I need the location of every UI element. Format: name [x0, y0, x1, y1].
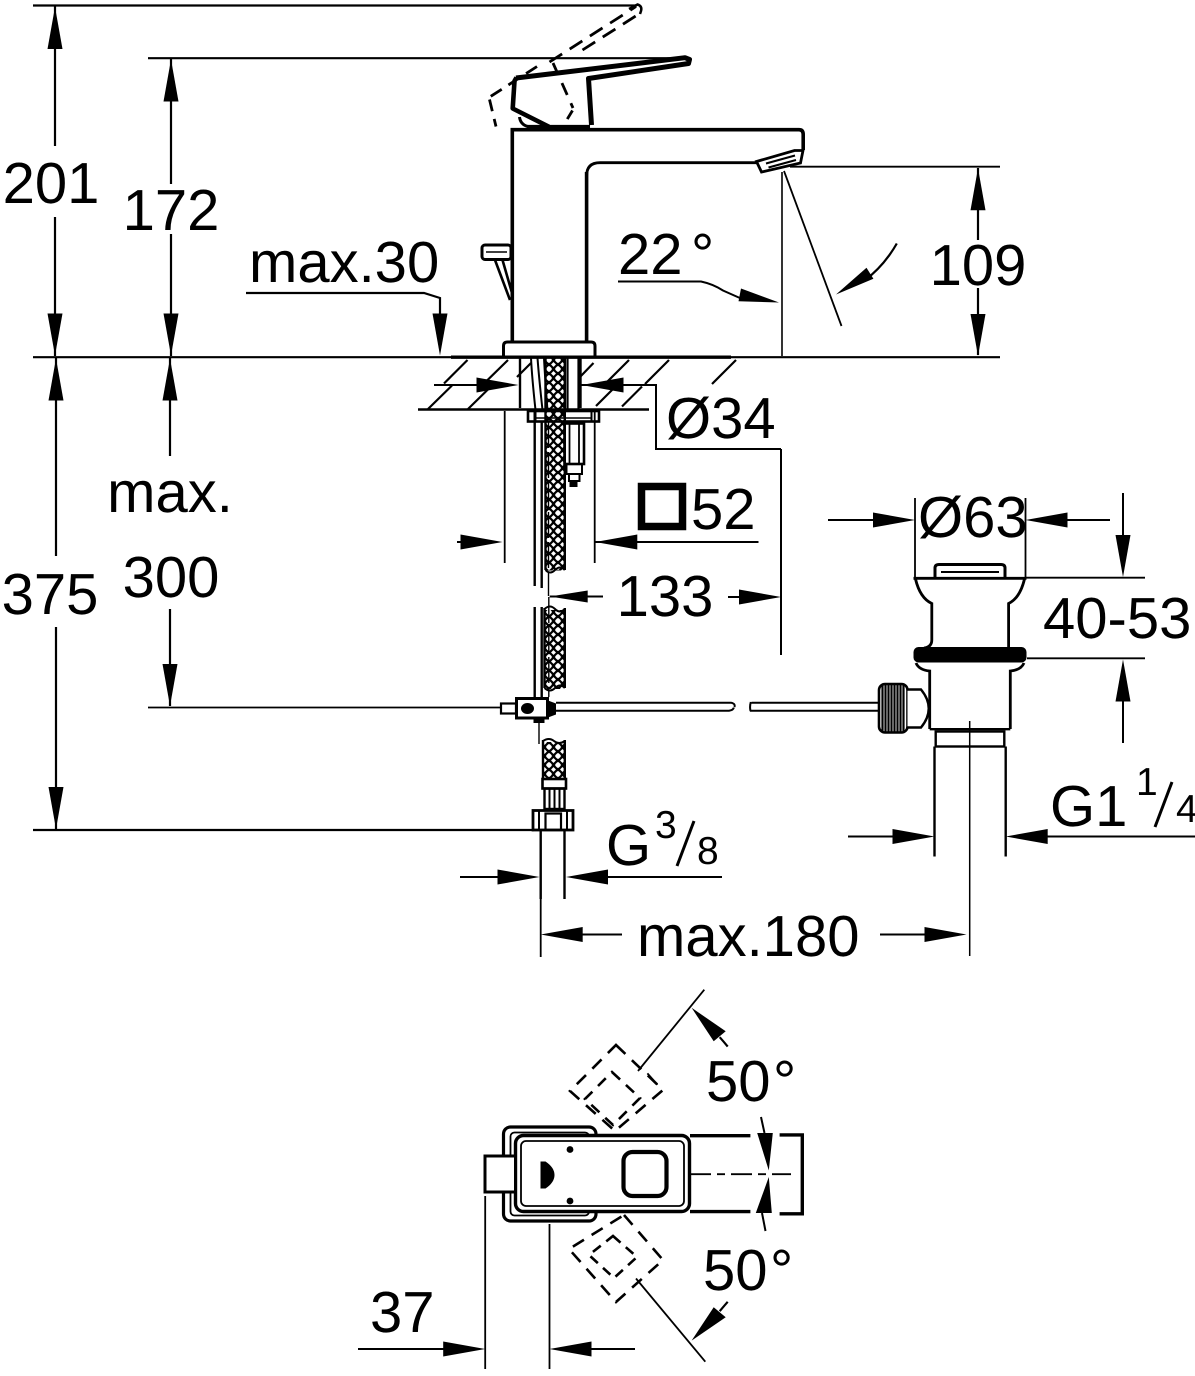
faucet body outline [511, 129, 804, 343]
counter hatching [428, 360, 736, 409]
drain knurled knob [879, 684, 929, 733]
dimension dia63 [828, 513, 1110, 528]
dimension G1 1/4 [848, 829, 1195, 844]
drain coupling [936, 732, 1005, 747]
braided hose to G3/8 [543, 739, 565, 778]
svg-text:375: 375 [2, 562, 99, 627]
dimension 201 vertical line [48, 6, 63, 356]
svg-text:50: 50 [703, 1238, 768, 1303]
dimension max.300 vertical line [163, 358, 178, 706]
label sq52 [642, 477, 756, 542]
top view pop-up knob tab [485, 1156, 516, 1192]
hose centerline [539, 422, 549, 744]
pop-up rod knob behind faucet [482, 245, 512, 300]
extension line top (201 level) [33, 4, 637, 6]
extension line 133 right / dia34 [780, 449, 782, 655]
dimension max.180 [541, 927, 967, 942]
threaded shank / braided hose upper [546, 358, 565, 573]
counter bottom line [418, 408, 649, 411]
extension line rod level (max.300 end) [148, 707, 502, 709]
pull rod in hole [566, 358, 568, 411]
mounting hole edges [519, 358, 521, 409]
dimension 375 vertical line [49, 358, 64, 829]
spout aerator [757, 151, 804, 173]
svg-text:Ø63: Ø63 [918, 485, 1028, 550]
svg-text:°: ° [691, 222, 714, 287]
G3/8 hose ferrule [543, 779, 567, 789]
G3/8 connection nut [533, 811, 573, 831]
water stream 22 deg line [784, 171, 842, 326]
50deg leader arrow lower [692, 1302, 728, 1341]
dimension G3/8 [460, 870, 722, 885]
G3/8 tail pipe [540, 830, 542, 899]
dimension 133 [550, 590, 781, 605]
dashed square upper inner [585, 1072, 640, 1125]
drain body [916, 663, 1024, 729]
50deg extension line lower [636, 1279, 705, 1362]
leader max.30 [246, 293, 448, 356]
handle lever (solid, down position) [513, 58, 690, 128]
svg-text:37: 37 [370, 1280, 435, 1345]
rod tee junction [501, 699, 556, 724]
dimension 37 [358, 1342, 635, 1357]
drain tail pipe [933, 747, 935, 857]
arc arrow to 22deg line [836, 244, 897, 295]
svg-text:°: ° [773, 1049, 796, 1114]
dimension 40-53 [1116, 493, 1131, 743]
G3/8 corrugated sleeve [545, 789, 565, 810]
dashed square lower outer [569, 1215, 663, 1302]
50deg leader arrow upper [692, 1008, 728, 1047]
extension line 172 level [148, 57, 686, 59]
svg-text:1: 1 [1136, 761, 1158, 804]
dashed square lower inner [589, 1236, 637, 1278]
braided hose lower [545, 607, 565, 691]
horizontal rod segment 2 [750, 702, 879, 711]
svg-text:109: 109 [930, 233, 1027, 298]
water stream vertical reference [781, 172, 783, 356]
svg-text:max.180: max.180 [637, 904, 859, 969]
svg-text:G1: G1 [1050, 774, 1127, 839]
drain dim dia63 extension lines [914, 498, 916, 578]
dimension 109 vertical line [971, 168, 986, 356]
top view handle body [516, 1136, 690, 1212]
counter top line [33, 356, 1000, 358]
svg-text:Ø34: Ø34 [666, 386, 776, 451]
svg-text:4: 4 [1176, 788, 1195, 831]
svg-text:max.: max. [107, 460, 233, 525]
faucet base plate [504, 342, 596, 357]
svg-text:40-53: 40-53 [1043, 586, 1191, 651]
svg-text:G: G [606, 813, 651, 878]
mounting washer nut [528, 411, 599, 422]
hoses curving through hole [531, 358, 548, 411]
extension line bottom (375 end) [33, 829, 534, 831]
horizontal rod segment 1 [556, 703, 735, 711]
dimension 172 vertical line [164, 59, 179, 356]
svg-text:133: 133 [617, 564, 714, 629]
top view logo mark [541, 1162, 555, 1189]
extension line spout outlet level [790, 166, 1000, 168]
drain centerline [969, 721, 971, 956]
svg-text:201: 201 [3, 151, 100, 216]
drain plug cap [935, 565, 1005, 578]
top view lever blade lines [690, 1135, 802, 1214]
pull rod guide block [565, 424, 585, 488]
handle raised position (dashed) [490, 5, 642, 127]
top view base plate [504, 1127, 597, 1221]
pull rod lower (to tee) [535, 412, 542, 697]
svg-text:22: 22 [618, 222, 683, 287]
svg-text:max.30: max.30 [249, 230, 439, 295]
top view handle inner line [521, 1141, 684, 1206]
40-53 extension lines [1026, 577, 1146, 579]
svg-text:52: 52 [691, 477, 756, 542]
svg-text:50: 50 [706, 1049, 771, 1114]
top view lever square [624, 1152, 667, 1196]
dashed square upper outer [570, 1045, 663, 1131]
top view screw dots [567, 1146, 574, 1153]
leader 22deg [618, 282, 779, 303]
svg-text:°: ° [770, 1238, 793, 1303]
drain rubber washer [914, 647, 1027, 663]
label G1 1/4 [1050, 761, 1195, 839]
drain flange [914, 578, 1027, 648]
svg-text:300: 300 [123, 545, 220, 610]
50deg extension line upper [638, 990, 704, 1085]
top view centerline [690, 1173, 791, 1175]
37 extension lines [484, 1196, 486, 1369]
dimension sq52 [457, 535, 759, 550]
top view base plate inner line [511, 1133, 590, 1216]
svg-text:8: 8 [697, 830, 719, 873]
sq52 extension lines [504, 411, 506, 563]
dimension dia34 [434, 378, 781, 450]
angle bowtie arrows [756, 1117, 773, 1231]
extension line for max180 left [540, 899, 542, 957]
svg-text:172: 172 [123, 178, 220, 243]
svg-text:3: 3 [655, 804, 677, 847]
label G3/8 [606, 804, 719, 878]
